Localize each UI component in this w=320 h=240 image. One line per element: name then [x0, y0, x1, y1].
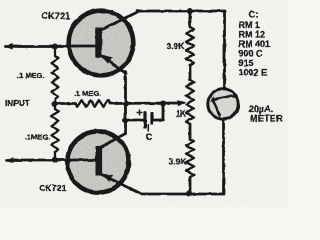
node bottom rail junction	[186, 191, 192, 197]
transistor Q2 emitter lead	[100, 174, 143, 195]
resistor R6 3.9K bottom	[186, 139, 194, 177]
node base top junction	[52, 44, 58, 50]
pot wiper arrow	[177, 100, 186, 106]
label C leader line	[147, 125, 149, 132]
wire right column below meter + bottom rail	[142, 119, 224, 194]
paper background	[0, 0, 288, 207]
resistor R2 .1MEG vertical bottom	[52, 104, 59, 161]
wire top-left base lead	[6, 45, 67, 48]
wire bottom-left base lead	[7, 159, 69, 162]
wire top rail	[138, 11, 225, 89]
transistor Q2 CK721 circle	[67, 131, 128, 192]
resistor R3 .1 MEG. horizontal	[55, 102, 76, 105]
transistor Q1 collector lead	[100, 11, 139, 30]
node INPUT junction	[52, 101, 58, 107]
transistor Q2 collector lead	[100, 134, 126, 149]
potentiometer R5 1K	[186, 80, 194, 124]
wire between 3.9K and 1K	[189, 65, 192, 80]
node base bottom junction	[52, 157, 58, 163]
wire emitter/collector tie vertical	[124, 72, 127, 134]
transistor Q1 base bar	[95, 28, 102, 58]
node cap-left junction	[123, 117, 129, 123]
meter M1 scale line	[212, 96, 236, 101]
wire middle column top stub	[189, 11, 192, 27]
resistor R1 .1 MEG vertical top	[52, 47, 59, 104]
paper grain overlay	[0, 0, 288, 207]
node arrow left bottom (off-page)	[5, 157, 14, 163]
wire between 1K and lower 3.9K	[189, 124, 192, 139]
meter M1 20uA circle	[208, 89, 238, 119]
capacitor C branch right	[154, 104, 164, 121]
transistor Q2 base lead	[67, 159, 97, 162]
capacitor + polarity mark	[137, 110, 143, 116]
transistor Q1 emitter lead	[101, 55, 127, 74]
wire middle column bottom stub	[189, 177, 192, 194]
wire main horizontal to pot wiper	[110, 102, 179, 105]
node cap-right junction	[160, 101, 166, 107]
resistor R4 3.9K top	[186, 27, 194, 65]
node emitter-wire junction	[123, 101, 129, 107]
capacitor C branch left	[126, 119, 144, 122]
transistor Q1 emitter arrow	[102, 55, 113, 64]
capacitor C plates	[143, 112, 146, 129]
transistor Q1 base lead	[66, 45, 96, 48]
transistor Q1 CK721 circle	[69, 11, 134, 76]
transistor Q2 base bar	[96, 146, 103, 176]
node arrow left top (off-page)	[4, 44, 13, 50]
meter M1 needle arrowhead	[210, 97, 216, 102]
node top rail junction	[187, 8, 193, 14]
transistor Q2 emitter arrow	[102, 174, 113, 182]
meter M1 needle	[213, 101, 220, 117]
